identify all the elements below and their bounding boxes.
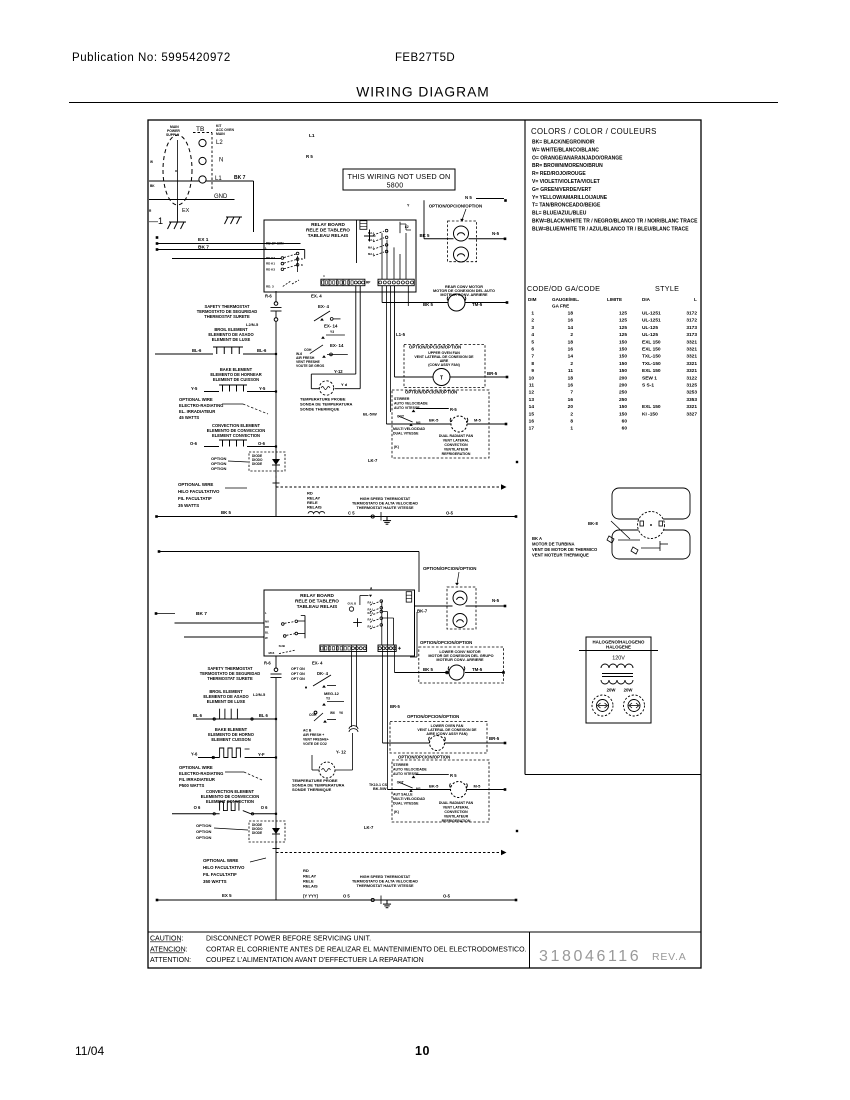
svg-text:DUAL RADIANT FAN: DUAL RADIANT FAN [439, 434, 474, 438]
svg-text:FEB27T5D: FEB27T5D [395, 52, 455, 64]
svg-text:W: W [150, 160, 153, 164]
svg-text:OPTION: OPTION [196, 829, 211, 834]
svg-text:AUT SALLE: AUT SALLE [393, 793, 413, 797]
svg-text:SUB: SUB [279, 644, 286, 648]
svg-text:DISCONNECT POWER BEFORE SERVIC: DISCONNECT POWER BEFORE SERVICING UNIT. [206, 936, 371, 943]
svg-text:BK 5: BK 5 [221, 510, 232, 515]
svg-text:2: 2 [570, 361, 573, 367]
svg-text:L1: L1 [309, 133, 315, 139]
svg-text:REV.A: REV.A [652, 951, 687, 963]
svg-text:R: R [149, 209, 152, 213]
svg-text:BK: BK [150, 184, 155, 188]
svg-text:BL-5/W: BL-5/W [363, 412, 377, 417]
svg-text:3: 3 [531, 325, 534, 331]
svg-text:UL-125: UL-125 [642, 332, 658, 338]
svg-text:11/04: 11/04 [75, 1044, 104, 1058]
svg-text:Y3: Y3 [326, 697, 330, 701]
svg-text:V= VIOLET/VIOLETA/VIOLET: V= VIOLET/VIOLETA/VIOLET [532, 179, 600, 185]
svg-text:VOITE DE CO2: VOITE DE CO2 [303, 742, 327, 746]
svg-text:RELE DE TABLERO: RELE DE TABLERO [306, 228, 350, 233]
svg-text:150: 150 [619, 361, 627, 367]
svg-text:BLW=BLUE/WHITE TR / AZUL/BLANC: BLW=BLUE/WHITE TR / AZUL/BLANCO TR / BLE… [532, 226, 689, 232]
svg-text:L1-5: L1-5 [396, 332, 406, 337]
svg-text:14: 14 [568, 325, 574, 331]
svg-text:1: 1 [531, 311, 534, 317]
svg-text:3321: 3321 [686, 368, 697, 374]
svg-text:16: 16 [568, 347, 574, 353]
svg-text:REFRIGERATION: REFRIGERATION [442, 819, 471, 823]
svg-text:RELAY BOARD: RELAY BOARD [300, 593, 334, 598]
svg-text:COLORS / COLOR / COULEURS: COLORS / COLOR / COULEURS [531, 127, 657, 136]
svg-text:ATTENTION:: ATTENTION: [150, 957, 191, 964]
svg-text:EX- 14: EX- 14 [324, 324, 338, 329]
svg-text:350 WATTS: 350 WATTS [203, 879, 227, 884]
svg-text:Y-5: Y-5 [191, 386, 198, 391]
svg-text:OPT ON: OPT ON [291, 667, 305, 671]
svg-text:N: N [219, 158, 223, 164]
svg-text:L2: L2 [216, 140, 223, 146]
svg-text:12: 12 [529, 390, 535, 396]
svg-text:AC B: AC B [303, 729, 312, 733]
svg-text:150: 150 [619, 339, 627, 345]
svg-text:THERMOSTAT SURETE: THERMOSTAT SURETE [207, 676, 253, 681]
svg-text:M-5: M-5 [474, 418, 482, 423]
svg-text:9: 9 [531, 368, 534, 374]
svg-text:Y d: Y d [341, 382, 348, 387]
svg-text:TXL-150: TXL-150 [642, 361, 661, 367]
svg-text:OPT ON: OPT ON [291, 672, 305, 676]
svg-text:O 6: O 6 [261, 805, 268, 810]
svg-text:MS: MS [416, 787, 421, 791]
svg-text:OPTION/OPCION/OPTION: OPTION/OPCION/OPTION [420, 640, 472, 645]
svg-text:DIODE: DIODE [252, 462, 262, 466]
svg-text:L: L [265, 611, 267, 615]
svg-text:BK 5: BK 5 [423, 667, 434, 672]
svg-text:VENT DE MOTOR DE THERMICO: VENT DE MOTOR DE THERMICO [532, 547, 598, 552]
svg-text:O-6: O-6 [190, 441, 198, 446]
svg-text:BK-5: BK-5 [429, 784, 439, 789]
svg-text:M16: M16 [269, 651, 275, 655]
svg-text:HALOGENE: HALOGENE [606, 645, 631, 650]
svg-text:EX 5: EX 5 [222, 893, 232, 898]
svg-text:2: 2 [570, 332, 573, 338]
svg-text:R 5: R 5 [306, 154, 313, 159]
svg-text:L: L [694, 297, 697, 302]
svg-text:BK 7: BK 7 [196, 611, 207, 617]
svg-text:RD. 3: RD. 3 [266, 285, 274, 289]
svg-text:250: 250 [619, 390, 627, 396]
svg-text:BK-5: BK-5 [429, 418, 439, 423]
svg-text:VENTILATEUR: VENTILATEUR [444, 815, 469, 819]
svg-text:MULTI VELOCIDAD: MULTI VELOCIDAD [393, 427, 425, 431]
svg-text:BR-5: BR-5 [489, 736, 500, 741]
svg-text:Y- 12: Y- 12 [336, 750, 346, 755]
svg-text:FIL IRRADIATEUR: FIL IRRADIATEUR [179, 777, 215, 782]
svg-text:EX- 14: EX- 14 [330, 343, 344, 348]
svg-text:BL-6: BL-6 [192, 348, 202, 353]
svg-text:AIR FRESH +: AIR FRESH + [303, 733, 324, 737]
svg-text:UL-1251: UL-1251 [642, 318, 661, 324]
svg-text:20: 20 [568, 404, 574, 410]
svg-text:RELAIS: RELAIS [303, 884, 318, 889]
svg-text:OPTION/OPCION/OPTION: OPTION/OPCION/OPTION [407, 714, 459, 719]
svg-text:TABLEAU RELAIS: TABLEAU RELAIS [297, 604, 338, 609]
svg-text:GAUGE/MIL.: GAUGE/MIL. [552, 297, 579, 302]
svg-text:K: K [301, 263, 303, 267]
svg-text:TERMOSTATO DE ALTA VELOCIDAD: TERMOSTATO DE ALTA VELOCIDAD [352, 502, 418, 506]
svg-text:Y-5: Y-5 [259, 386, 266, 391]
svg-text:13: 13 [529, 397, 535, 403]
svg-text:RELAIS: RELAIS [307, 505, 322, 510]
svg-text:20W: 20W [624, 688, 634, 693]
svg-text:OPTION/OPCION/OPTION: OPTION/OPCION/OPTION [423, 566, 476, 571]
svg-text:ELEMENT DE LUXE: ELEMENT DE LUXE [207, 699, 246, 704]
svg-text:318046116: 318046116 [539, 948, 641, 965]
svg-text:DIA: DIA [642, 297, 651, 302]
svg-text:WIRING DIAGRAM: WIRING DIAGRAM [356, 85, 490, 100]
svg-text:TXL-150: TXL-150 [642, 354, 661, 360]
svg-text:OPTION/OPCION/OPTION: OPTION/OPCION/OPTION [429, 204, 482, 209]
svg-text:R-5: R-5 [450, 407, 457, 412]
svg-text:G= GREEN/VERDE/VERT: G= GREEN/VERDE/VERT [532, 187, 591, 193]
svg-text:GA FRE: GA FRE [552, 304, 569, 309]
svg-text:BK= BLACK/NEGRO/NOIR: BK= BLACK/NEGRO/NOIR [532, 140, 595, 146]
svg-text:2: 2 [531, 318, 534, 324]
svg-text:Y-12: Y-12 [334, 369, 343, 374]
svg-text:HILO FACULTATIVO: HILO FACULTATIVO [203, 865, 245, 870]
svg-text:3253: 3253 [686, 390, 697, 396]
svg-text:O 5: O 5 [343, 894, 350, 899]
svg-text:150: 150 [619, 347, 627, 353]
svg-text:AUTO VELOCIDADE: AUTO VELOCIDADE [393, 768, 427, 772]
svg-text:N 5: N 5 [465, 195, 472, 200]
svg-text:3321: 3321 [686, 339, 697, 345]
svg-text:8: 8 [570, 419, 573, 425]
svg-text:STIRRER: STIRRER [394, 397, 410, 401]
svg-text:OPTIONAL WIRE: OPTIONAL WIRE [203, 858, 238, 863]
svg-text:CONVECTION: CONVECTION [444, 810, 468, 814]
svg-text:OPT ON: OPT ON [291, 677, 305, 681]
svg-text:8: 8 [531, 361, 534, 367]
svg-text:BK-5/W: BK-5/W [373, 787, 387, 791]
svg-text:UL-125: UL-125 [642, 325, 658, 331]
svg-text:45 WATTS: 45 WATTS [179, 415, 199, 420]
svg-text:MULTI VELOCIDAD: MULTI VELOCIDAD [393, 797, 425, 801]
svg-text:L: L [265, 246, 267, 250]
svg-text:AUTO VITESSE: AUTO VITESSE [393, 772, 419, 776]
svg-text:LK-7: LK-7 [368, 458, 378, 463]
svg-text:CGH: CGH [304, 348, 312, 352]
svg-text:18: 18 [568, 311, 574, 317]
svg-text:EX: EX [182, 208, 190, 214]
svg-text:125: 125 [619, 311, 627, 317]
svg-text:VENT FRESHE+: VENT FRESHE+ [303, 738, 329, 742]
svg-text:(K): (K) [394, 445, 399, 449]
svg-text:AUTO VELOCIDADE: AUTO VELOCIDADE [394, 402, 428, 406]
svg-text:VENTILATEUR: VENTILATEUR [444, 448, 469, 452]
svg-text:BKW=BLACK/WHITE TR / NEGRO/BLA: BKW=BLACK/WHITE TR / NEGRO/BLANCO TR / N… [532, 219, 698, 225]
svg-text:SEW 1: SEW 1 [642, 375, 657, 381]
svg-text:5: 5 [531, 339, 534, 345]
svg-text:3125: 3125 [686, 383, 697, 389]
svg-text:CODE/OD GA/CODE: CODE/OD GA/CODE [527, 284, 600, 293]
svg-text:(Y YYY): (Y YYY) [303, 894, 319, 899]
svg-text:RD K1: RD K1 [266, 262, 275, 266]
svg-text:4: 4 [531, 332, 534, 338]
svg-text:60: 60 [622, 426, 628, 432]
svg-text:11: 11 [568, 368, 573, 374]
svg-text:3173: 3173 [686, 325, 697, 331]
svg-text:L2: L2 [405, 225, 409, 229]
svg-text:THERMOSTAT HAUTE VITESSE: THERMOSTAT HAUTE VITESSE [356, 506, 413, 510]
svg-text:MS: MS [416, 421, 421, 425]
svg-text:DUAL RADIANT FAN: DUAL RADIANT FAN [439, 801, 474, 805]
svg-text:Y6: Y6 [339, 711, 343, 715]
svg-text:10: 10 [529, 375, 535, 381]
svg-text:DIODE: DIODE [252, 831, 262, 835]
svg-text:OPTION: OPTION [196, 835, 211, 840]
svg-text:BK 5: BK 5 [423, 302, 434, 307]
svg-text:18: 18 [568, 339, 574, 345]
svg-text:W: W [265, 636, 268, 640]
svg-text:T: T [440, 376, 443, 382]
svg-text:MAIN: MAIN [216, 132, 225, 136]
svg-text:Y= YELLOW/AMARILLO/JAUNE: Y= YELLOW/AMARILLO/JAUNE [532, 195, 608, 201]
svg-text:TM-5: TM-5 [472, 302, 483, 307]
svg-text:125: 125 [619, 318, 627, 324]
svg-text:3172: 3172 [686, 311, 697, 317]
svg-text:MEG-12: MEG-12 [324, 691, 340, 696]
svg-text:BK 7: BK 7 [198, 245, 209, 251]
svg-text:RELE DE TABLERO: RELE DE TABLERO [295, 599, 339, 604]
svg-text:3321: 3321 [686, 404, 697, 410]
svg-text:BL 6: BL 6 [193, 713, 203, 718]
svg-text:C 5: C 5 [348, 511, 355, 516]
svg-text:NU: NU [265, 620, 269, 624]
svg-text:150: 150 [619, 411, 627, 417]
svg-text:HILO FACULTATIVO: HILO FACULTATIVO [178, 489, 220, 494]
svg-text:ELEMENT DE CUISSON: ELEMENT DE CUISSON [213, 377, 259, 382]
svg-text:O 6: O 6 [194, 805, 201, 810]
svg-text:125: 125 [619, 332, 627, 338]
svg-text:—1: —1 [149, 216, 163, 226]
svg-text:RA L: RA L [368, 611, 375, 615]
svg-text:COUPEZ L'ALIMENTATION AVANT D': COUPEZ L'ALIMENTATION AVANT D'EFFECTUER … [206, 957, 424, 964]
svg-text:3321: 3321 [686, 354, 697, 360]
svg-text:BL-6: BL-6 [257, 348, 267, 353]
svg-text:Y: Y [407, 204, 410, 208]
svg-text:RD: RD [303, 868, 309, 873]
svg-text:16: 16 [568, 318, 574, 324]
svg-text:7: 7 [570, 390, 573, 396]
svg-text:RD: RD [265, 625, 269, 629]
svg-text:O-5: O-5 [446, 511, 454, 516]
svg-text:AIRE (CONV ASSY FAN): AIRE (CONV ASSY FAN) [426, 732, 468, 736]
svg-text:OPTION/OPCION/OPTION: OPTION/OPCION/OPTION [398, 755, 450, 760]
svg-text:Y3: Y3 [330, 330, 334, 334]
svg-text:P500 WATTS: P500 WATTS [179, 783, 204, 788]
svg-text:AUTO VITESSE: AUTO VITESSE [394, 406, 420, 410]
svg-text:MOTOR DE TURBINA: MOTOR DE TURBINA [532, 542, 575, 547]
svg-text:EX- 4: EX- 4 [312, 661, 323, 666]
svg-text:TM-5: TM-5 [472, 667, 483, 672]
svg-text:W6: W6 [330, 711, 335, 715]
svg-text:RD 2P CXN: RD 2P CXN [266, 242, 284, 246]
svg-text:RA L: RA L [368, 618, 375, 622]
svg-text:35 WATTS: 35 WATTS [178, 503, 199, 508]
svg-text:M-5: M-5 [474, 784, 482, 789]
svg-text:(K): (K) [394, 810, 399, 814]
svg-text:BL 6: BL 6 [259, 713, 269, 718]
svg-text:BK 5: BK 5 [420, 233, 431, 238]
svg-text:FIL FACULTATIF: FIL FACULTATIF [203, 872, 237, 877]
svg-text:14: 14 [529, 404, 535, 410]
svg-text:EL. IRRADIATEUR: EL. IRRADIATEUR [179, 409, 215, 414]
svg-text:10: 10 [415, 1044, 430, 1058]
svg-text:16: 16 [568, 383, 574, 389]
svg-text:SONDE THERMIQUE: SONDE THERMIQUE [292, 787, 332, 792]
svg-text:O-6: O-6 [258, 441, 266, 446]
svg-text:R= RED/ROJO/ROUGE: R= RED/ROJO/ROUGE [532, 171, 586, 177]
svg-text:DUAL VITESSE: DUAL VITESSE [393, 432, 419, 436]
svg-text:3172: 3172 [686, 318, 697, 324]
svg-text:BR-5: BR-5 [487, 371, 498, 376]
svg-text:200: 200 [619, 383, 627, 389]
svg-text:3321: 3321 [686, 347, 697, 353]
svg-text:125: 125 [619, 325, 627, 331]
svg-text:MOTEUR CONV. ARRIERE: MOTEUR CONV. ARRIERE [436, 658, 484, 662]
svg-text:Publication No: 5995420972: Publication No: 5995420972 [72, 52, 231, 64]
svg-text:RA L: RA L [368, 624, 375, 628]
svg-text:RD K3: RD K3 [266, 267, 275, 271]
svg-text:OPTIONAL WIRE: OPTIONAL WIRE [179, 765, 213, 770]
svg-text:11: 11 [529, 383, 534, 389]
svg-text:CORTAR EL CORRIENTE ANTES DE R: CORTAR EL CORRIENTE ANTES DE REALIZAR EL… [206, 947, 527, 954]
svg-text:R 5: R 5 [450, 773, 457, 778]
svg-text:SONDE THERMIQUE: SONDE THERMIQUE [300, 407, 340, 412]
svg-text:L2/N-5: L2/N-5 [253, 692, 266, 697]
svg-text:3321: 3321 [686, 361, 697, 367]
svg-text:LIMITE: LIMITE [607, 297, 622, 302]
svg-text:TB: TB [196, 126, 204, 133]
svg-text:200: 200 [619, 375, 627, 381]
svg-text:L2/N-5: L2/N-5 [246, 322, 259, 327]
svg-text:120V: 120V [612, 656, 625, 662]
svg-text:BL= BLUE/AZUL/BLEU: BL= BLUE/AZUL/BLEU [532, 211, 587, 217]
svg-text:EX- 4: EX- 4 [318, 304, 330, 309]
svg-text:THERMOSTAT HAUTE VITESSE: THERMOSTAT HAUTE VITESSE [356, 884, 413, 888]
svg-text:EX 1: EX 1 [198, 237, 209, 243]
svg-text:6: 6 [531, 347, 534, 353]
svg-text:BL: BL [265, 631, 269, 635]
svg-text:FIL FACULTATIF: FIL FACULTATIF [178, 496, 212, 501]
svg-text:DUAL VITESSE: DUAL VITESSE [393, 802, 419, 806]
svg-text:CONVECTION: CONVECTION [444, 443, 468, 447]
svg-text:OPTIONAL WIRE: OPTIONAL WIRE [179, 397, 213, 402]
svg-text:250: 250 [619, 397, 627, 403]
svg-text:RA L: RA L [368, 607, 375, 611]
svg-text:T= TAN/BRONCEADO/BEIGE: T= TAN/BRONCEADO/BEIGE [532, 203, 601, 209]
svg-text:TERMOSTATO DE ALTA VELOCIDAD: TERMOSTATO DE ALTA VELOCIDAD [352, 880, 418, 884]
svg-text:DIM: DIM [528, 297, 537, 302]
svg-text:16: 16 [529, 419, 535, 425]
svg-text:ELECTRO-RADIATING: ELECTRO-RADIATING [179, 771, 223, 776]
svg-text:ELEMENT DE LUXE: ELEMENT DE LUXE [212, 337, 251, 342]
svg-text:R-6: R-6 [265, 294, 272, 299]
svg-text:S S-1: S S-1 [642, 383, 654, 389]
svg-text:EXL 150: EXL 150 [642, 404, 661, 410]
svg-text:W= WHITE/BLANCO/BLANC: W= WHITE/BLANCO/BLANC [532, 147, 599, 153]
svg-text:(CONV ASSY FAN): (CONV ASSY FAN) [428, 363, 460, 367]
svg-text:RD K2: RD K2 [266, 256, 275, 260]
svg-text:THIS WIRING NOT USED ON: THIS WIRING NOT USED ON [348, 172, 451, 181]
svg-text:5800: 5800 [387, 183, 404, 190]
svg-text:LK-7: LK-7 [364, 825, 374, 830]
svg-text:VENT LATERAL: VENT LATERAL [443, 439, 470, 443]
svg-text:STIRRER: STIRRER [393, 763, 409, 767]
svg-text:HIGH SPEED THERMOSTAT: HIGH SPEED THERMOSTAT [360, 875, 411, 879]
svg-text:4: 4 [323, 274, 325, 278]
svg-text:7: 7 [531, 354, 534, 360]
svg-text:3122: 3122 [686, 375, 697, 381]
svg-text:60: 60 [622, 419, 628, 425]
svg-text:BK-7: BK-7 [417, 609, 428, 614]
svg-text:BK A: BK A [532, 536, 542, 541]
svg-text:BR= BROWN/MORENO/BRUN: BR= BROWN/MORENO/BRUN [532, 163, 603, 169]
svg-text:BK-8: BK-8 [588, 521, 598, 526]
svg-text:VOUTE DE GROS: VOUTE DE GROS [296, 364, 325, 368]
svg-text:Y-6: Y-6 [191, 752, 198, 757]
svg-text:ELEMENT CONVECTION: ELEMENT CONVECTION [212, 433, 260, 438]
svg-text:RELAY BOARD: RELAY BOARD [311, 222, 345, 227]
svg-text:VENT MOTEUR THERMIQUE: VENT MOTEUR THERMIQUE [532, 553, 589, 558]
svg-text:GUL B: GUL B [348, 602, 357, 606]
svg-text:VENT LATERAL: VENT LATERAL [443, 806, 470, 810]
svg-text:18: 18 [568, 375, 574, 381]
svg-text:K: K [301, 257, 303, 261]
svg-text:3327: 3327 [686, 411, 697, 417]
svg-text:RA L: RA L [368, 601, 375, 605]
svg-text:14: 14 [568, 354, 574, 360]
svg-text:N-5: N-5 [492, 598, 500, 603]
svg-text:TABLEAU RELAIS: TABLEAU RELAIS [308, 233, 349, 238]
svg-text:EXL 150: EXL 150 [642, 347, 661, 353]
svg-text:ELEMENT CUISSON: ELEMENT CUISSON [211, 737, 250, 742]
svg-text:3353: 3353 [686, 397, 697, 403]
svg-text:EXL 150: EXL 150 [642, 339, 661, 345]
svg-text:RP: RP [366, 281, 371, 285]
svg-text:EXL 150: EXL 150 [642, 368, 661, 374]
svg-text:17: 17 [529, 426, 535, 432]
svg-text:150: 150 [619, 368, 627, 374]
svg-text:STYLE: STYLE [655, 284, 679, 293]
svg-text:HIGH SPEED THERMOSTAT: HIGH SPEED THERMOSTAT [360, 497, 411, 501]
svg-text:150: 150 [619, 404, 627, 410]
svg-text:Y-F: Y-F [258, 752, 265, 757]
svg-text:KI -150: KI -150 [642, 411, 658, 417]
svg-text:O-5: O-5 [443, 894, 451, 899]
svg-text:2: 2 [570, 411, 573, 417]
svg-text:150: 150 [619, 354, 627, 360]
svg-text:REFRIGERATION: REFRIGERATION [442, 452, 471, 456]
svg-text:20W: 20W [607, 688, 617, 693]
svg-text:BK 7: BK 7 [234, 175, 246, 181]
svg-text:OPTION: OPTION [211, 466, 226, 471]
svg-text:R-6: R-6 [264, 661, 271, 666]
svg-text:O= ORANGE/ANARANJADO/ORANGE: O= ORANGE/ANARANJADO/ORANGE [532, 155, 623, 161]
svg-text:UL-1251: UL-1251 [642, 311, 661, 317]
svg-text:3173: 3173 [686, 332, 697, 338]
